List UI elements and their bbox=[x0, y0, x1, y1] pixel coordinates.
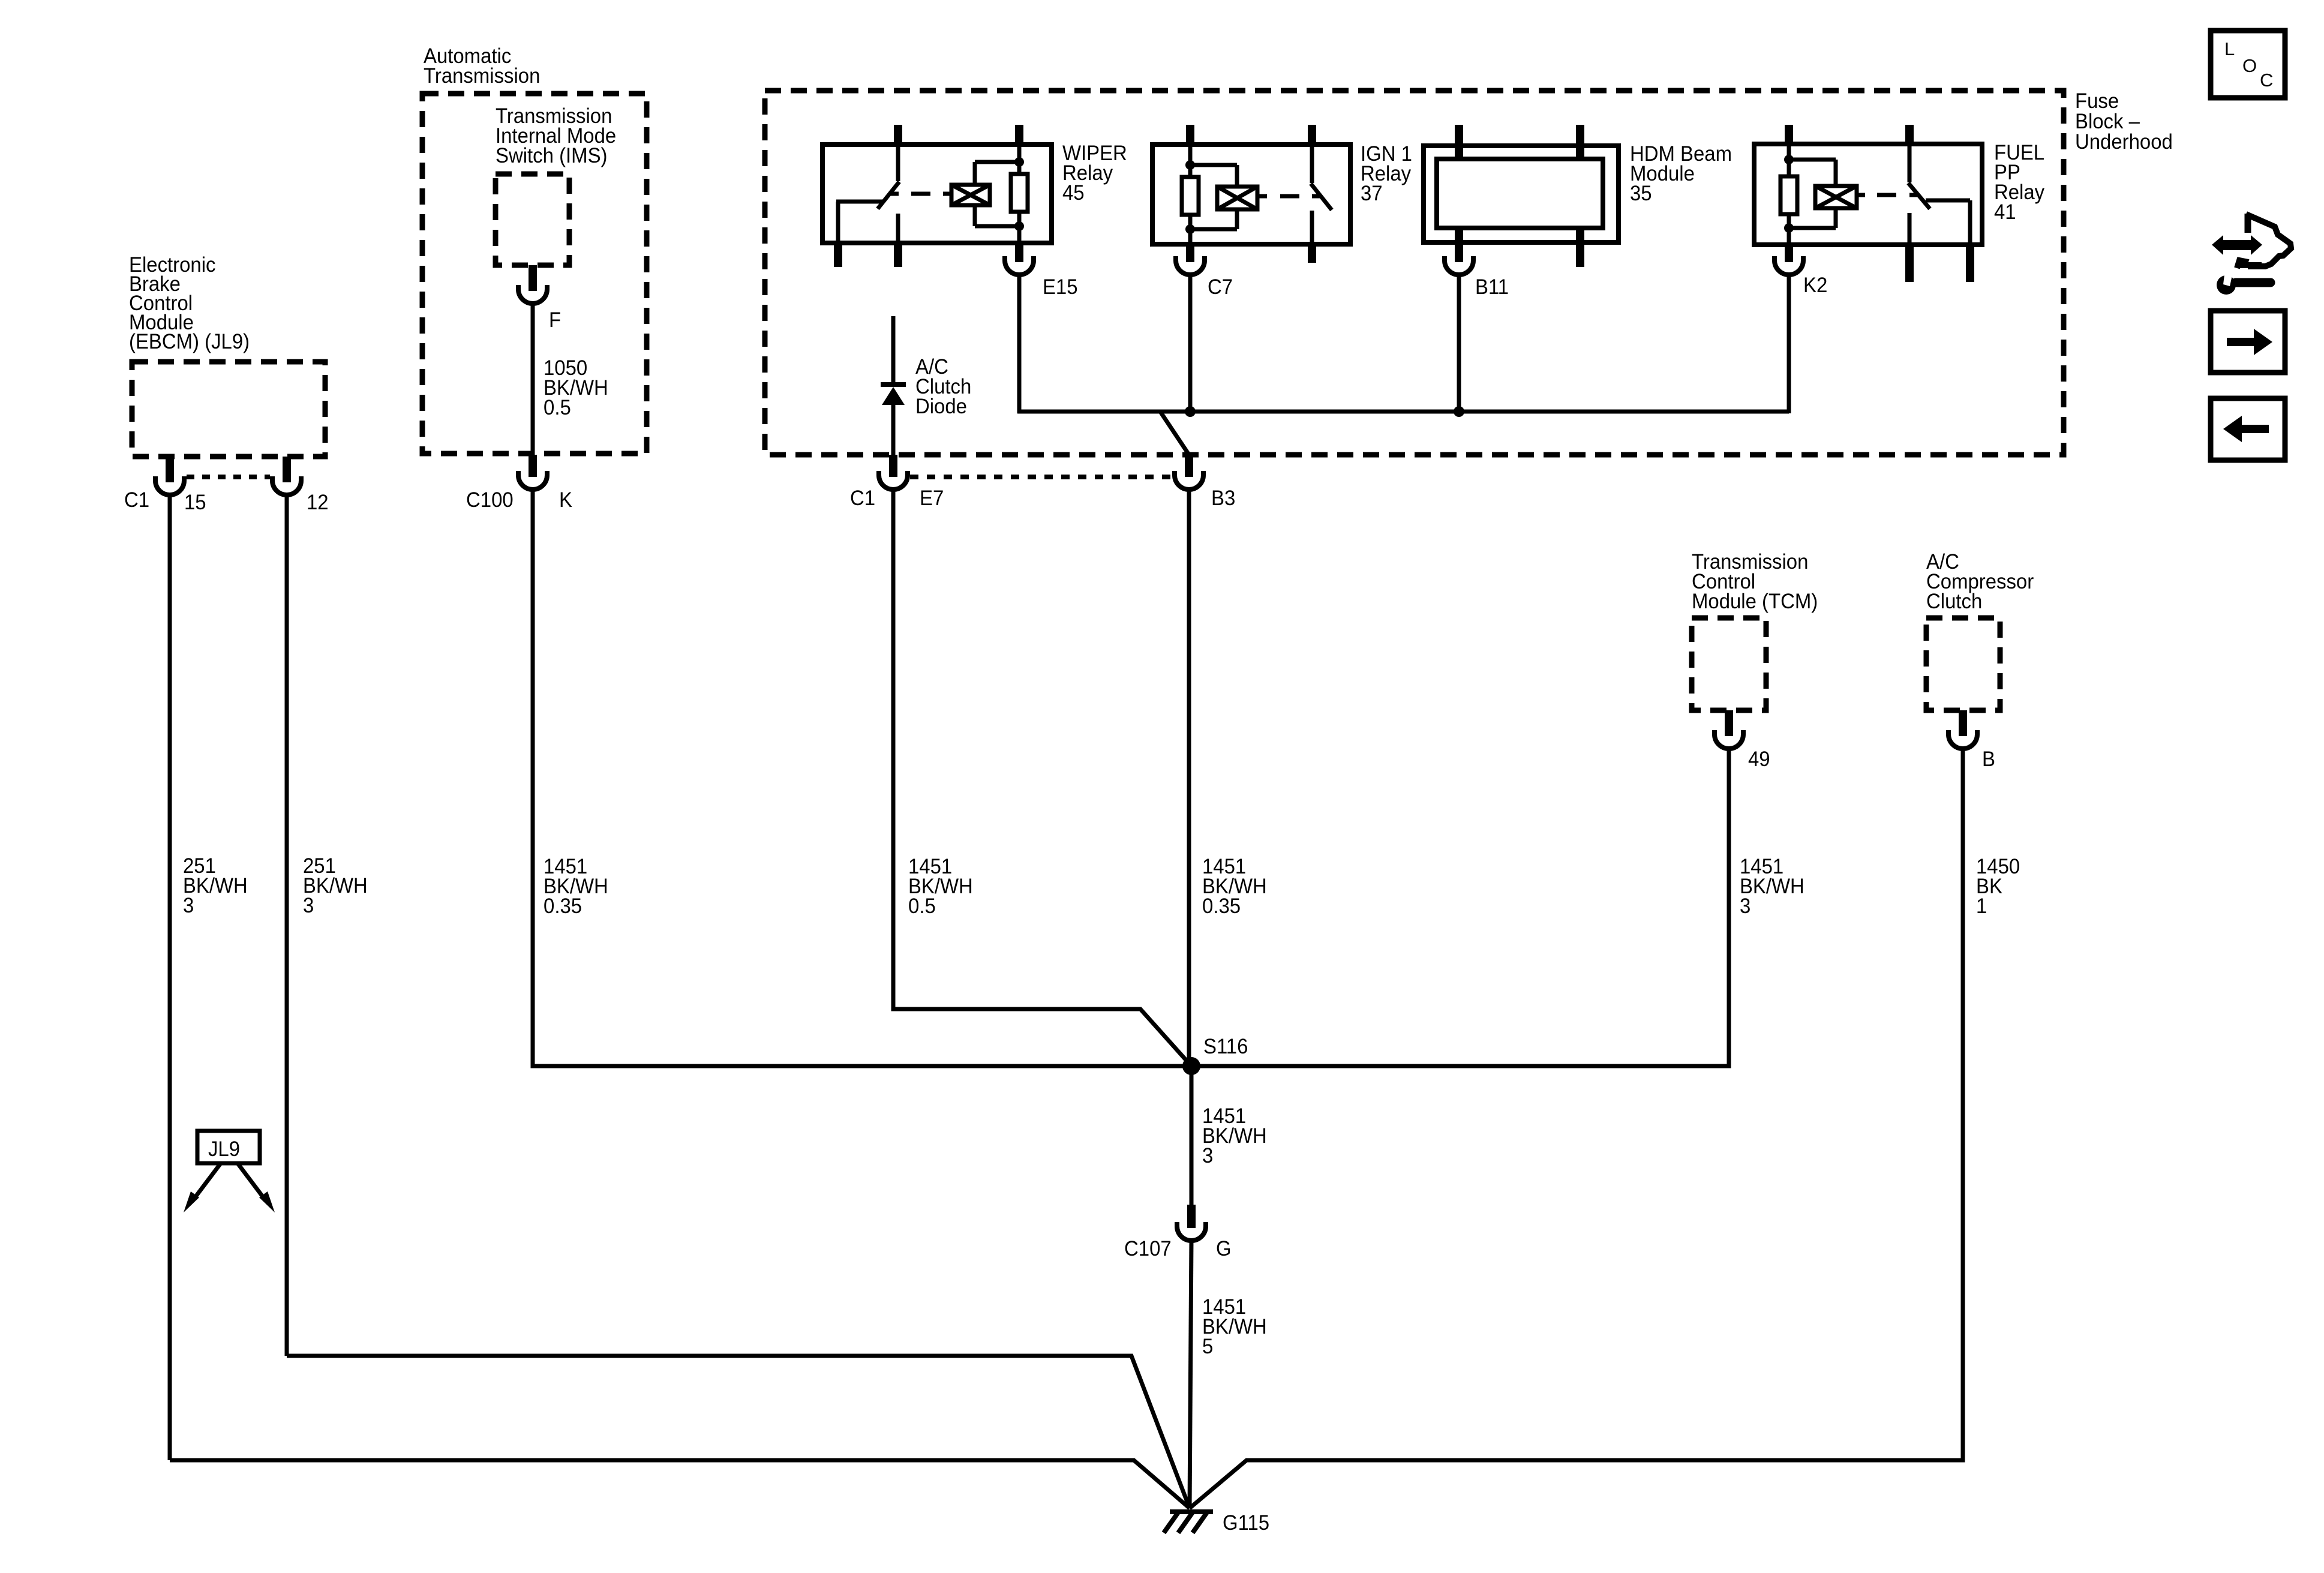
wire 1050 BK/WH from IMS F to C100 bbox=[531, 302, 535, 455]
svg-text:C1: C1 bbox=[124, 488, 149, 512]
svg-text:Underhood: Underhood bbox=[2075, 130, 2173, 154]
wire EBCM 12 to ground (upper run) bbox=[287, 1356, 1190, 1508]
svg-text:C100: C100 bbox=[466, 488, 514, 512]
svg-text:F: F bbox=[549, 308, 561, 332]
ground G115 symbol bbox=[1164, 1512, 1213, 1533]
svg-text:Transmission: Transmission bbox=[424, 64, 540, 88]
connector C107 pin bbox=[1187, 1205, 1196, 1228]
wire B11 down bbox=[1457, 274, 1461, 412]
wire diode to connector E7 bbox=[891, 404, 896, 456]
svg-text:1: 1 bbox=[1976, 894, 1987, 918]
wire 251 BK/WH from pin 15 down bbox=[168, 494, 172, 1460]
pin B of A/C compressor clutch bbox=[1959, 710, 1967, 736]
pin F of IMS bbox=[529, 265, 537, 291]
svg-text:Switch (IMS): Switch (IMS) bbox=[496, 144, 608, 167]
svg-text:B: B bbox=[1982, 748, 1995, 771]
connector C1 dotted gang line E7 to B3 bbox=[910, 475, 1172, 479]
svg-text:E7: E7 bbox=[920, 487, 944, 510]
svg-text:45: 45 bbox=[1062, 181, 1085, 205]
wire 1451 from B3 to S116 bbox=[1187, 488, 1191, 1066]
pin wiper relay top coil bbox=[1015, 125, 1023, 147]
pin fuel relay top switch bbox=[1905, 125, 1914, 146]
switch IMS dashed box bbox=[496, 174, 569, 265]
wire value label 1451 BK/WH 3 (below S116) bbox=[1202, 1104, 1267, 1167]
connector C7 arc bbox=[1176, 256, 1205, 275]
relay coil wiper (box with X) bbox=[951, 162, 1019, 226]
module label HDM Beam Module 35 bbox=[1630, 142, 1732, 205]
switch contact ign1 relay bbox=[1311, 145, 1332, 242]
module TCM dashed box bbox=[1692, 618, 1766, 710]
svg-text:3: 3 bbox=[1740, 894, 1750, 918]
wire 1450 BK from A/C clutch to ground bbox=[1190, 748, 1963, 1508]
junction dot ign1 coil top bbox=[1185, 160, 1195, 170]
resistor ign1 relay bbox=[1182, 145, 1199, 244]
pin ign1 relay top coil bbox=[1186, 125, 1194, 147]
relay label WIPER Relay 45 bbox=[1062, 142, 1127, 205]
module label Transmission Control Module (TCM) bbox=[1692, 550, 1818, 613]
connector C1 arc at pin 12 bbox=[272, 476, 301, 495]
svg-text:C: C bbox=[2260, 70, 2273, 91]
svg-text:Module (TCM): Module (TCM) bbox=[1692, 590, 1818, 613]
pin wiper relay top switch bbox=[894, 125, 902, 147]
relay K45 WIPER Relay box bbox=[822, 145, 1052, 243]
wire value label 1050 BK/WH 0.5 bbox=[544, 356, 608, 419]
module label A/C Compressor Clutch bbox=[1926, 550, 2034, 613]
svg-text:0.35: 0.35 bbox=[1202, 894, 1241, 918]
pin fuel relay top coil bbox=[1785, 125, 1793, 146]
connector E15 arc bbox=[1005, 256, 1034, 275]
connector B3 pin bbox=[1185, 455, 1193, 477]
svg-text:Clutch: Clutch bbox=[1926, 590, 1982, 613]
svg-text:(EBCM) (JL9): (EBCM) (JL9) bbox=[129, 330, 250, 353]
wire value label 1450 BK 1 bbox=[1976, 855, 2020, 918]
module A/C Compressor Clutch dashed box bbox=[1926, 618, 2000, 710]
svg-text:K: K bbox=[559, 488, 572, 512]
pin fuel relay bottom coil K2 bbox=[1785, 242, 1793, 262]
svg-text:41: 41 bbox=[1994, 200, 2016, 224]
icon arrow previous box bbox=[2211, 398, 2285, 460]
module label Fuse Block - Underhood bbox=[2075, 89, 2173, 154]
mechanical link dashes ign1 relay bbox=[1280, 194, 1299, 199]
svg-text:C7: C7 bbox=[1208, 275, 1233, 299]
pin hdm bottom left B11 bbox=[1455, 228, 1463, 262]
module HDM Beam Module inner box bbox=[1437, 159, 1603, 228]
pin hdm top right bbox=[1576, 125, 1584, 159]
junction dot fuel coil bottom bbox=[1784, 223, 1794, 233]
svg-text:K2: K2 bbox=[1803, 274, 1827, 297]
relay K41 FUEL PP Relay box bbox=[1754, 144, 1982, 245]
wire 251 BK/WH from pin 12 down bbox=[285, 494, 289, 1356]
module HDM Beam Module outer box bbox=[1424, 146, 1619, 242]
option code callout JL9 bbox=[184, 1131, 275, 1212]
connector C107 arc bbox=[1177, 1222, 1206, 1241]
svg-text:0.35: 0.35 bbox=[544, 894, 582, 918]
diode A/C Clutch Diode symbol bbox=[881, 385, 906, 405]
svg-text:5: 5 bbox=[1202, 1335, 1213, 1358]
svg-text:G115: G115 bbox=[1223, 1511, 1269, 1535]
junction dot at C7 bus bbox=[1185, 406, 1196, 417]
svg-text:JL9: JL9 bbox=[208, 1137, 240, 1161]
wire 1451 from C100 to S116 bus bbox=[533, 488, 1187, 1066]
svg-text:35: 35 bbox=[1630, 182, 1652, 205]
svg-text:B3: B3 bbox=[1211, 487, 1235, 510]
connector B3 arc bbox=[1175, 471, 1203, 490]
switch contact wiper relay bbox=[836, 145, 899, 242]
component label Transmission Internal Mode Switch (IMS) bbox=[496, 104, 616, 167]
pin wiper relay bottom common bbox=[834, 241, 842, 267]
connector 49 arc bbox=[1715, 730, 1743, 749]
wire value label 1451 BK/WH 0.35 (C100) bbox=[544, 855, 608, 918]
wire 1451 BK/WH 5 from C107 to ground bbox=[1190, 1239, 1191, 1508]
svg-text:B11: B11 bbox=[1475, 275, 1509, 299]
pin ign1 relay bottom coil C7 bbox=[1186, 242, 1194, 262]
pin ign1 relay bottom switch stub bbox=[1308, 242, 1316, 263]
connector C100 pin bbox=[529, 455, 537, 477]
wire K2 down bbox=[1787, 274, 1791, 413]
wire value label 1451 BK/WH 0.35 (B3) bbox=[1202, 855, 1267, 918]
junction dot ign1 coil bottom bbox=[1185, 224, 1195, 234]
pin 15 of EBCM bbox=[166, 457, 174, 482]
svg-text:E15: E15 bbox=[1043, 275, 1078, 299]
module Fuse Block Underhood dashed box bbox=[765, 91, 2064, 455]
svg-text:O: O bbox=[2242, 55, 2257, 76]
connector K2 arc bbox=[1774, 256, 1803, 275]
svg-text:Diode: Diode bbox=[915, 395, 967, 418]
pin ign1 relay top switch bbox=[1308, 125, 1316, 147]
svg-text:49: 49 bbox=[1748, 748, 1770, 771]
relay coil fuel (box with X) bbox=[1789, 160, 1865, 228]
relay label IGN 1 Relay 37 bbox=[1361, 142, 1412, 205]
wire value label 251 BK/WH 3 (left) bbox=[183, 854, 248, 917]
svg-text:S116: S116 bbox=[1203, 1035, 1248, 1058]
wire diagonal neck to B3 bbox=[1160, 412, 1189, 455]
pin 49 of TCM bbox=[1725, 710, 1733, 736]
wire 1451 from E7 to S116 bbox=[893, 488, 1191, 1066]
wire EBCM 15 to ground (lower run) bbox=[170, 1460, 1190, 1508]
connector C1 dotted gang line bbox=[187, 475, 270, 479]
module EBCM dashed box bbox=[132, 362, 325, 457]
connector F arc bbox=[518, 285, 547, 304]
svg-text:3: 3 bbox=[303, 894, 314, 917]
junction dot wiper coil top bbox=[1014, 157, 1024, 167]
junction dot at B11 bus bbox=[1454, 406, 1464, 417]
pin hdm top left bbox=[1455, 125, 1463, 159]
connector B arc bbox=[1948, 730, 1977, 749]
svg-text:3: 3 bbox=[1202, 1144, 1213, 1167]
switch contact fuel relay bbox=[1908, 144, 1970, 242]
connector C1 arc at pin 15 bbox=[155, 476, 184, 495]
mechanical link dashes fuel relay bbox=[1877, 193, 1896, 197]
svg-text:12: 12 bbox=[307, 491, 329, 514]
mechanical link dashes wiper relay bbox=[911, 192, 951, 196]
pin hdm bottom right stub bbox=[1576, 228, 1584, 267]
junction dot wiper coil bottom bbox=[1014, 221, 1024, 231]
relay label FUEL PP Relay 41 bbox=[1994, 141, 2045, 224]
svg-text:C107: C107 bbox=[1124, 1237, 1172, 1260]
wire C7 down bbox=[1188, 274, 1193, 412]
svg-text:0.5: 0.5 bbox=[908, 894, 936, 918]
pin fuel relay bottom switch stub bbox=[1905, 242, 1914, 282]
pin 12 of EBCM bbox=[283, 457, 291, 482]
relay coil ign1 (box with X) bbox=[1190, 165, 1267, 229]
wire value label 1451 BK/WH 5 bbox=[1202, 1295, 1267, 1358]
connector C100 arc bbox=[518, 471, 547, 490]
svg-text:3: 3 bbox=[183, 894, 194, 917]
icon LOC box bbox=[2211, 31, 2285, 98]
wire 1451 from TCM to S116 bus bbox=[1191, 748, 1729, 1066]
relay K37 IGN 1 Relay box bbox=[1152, 145, 1350, 244]
icon arrow next box bbox=[2211, 311, 2285, 373]
pin wiper relay bottom switch bbox=[894, 241, 902, 267]
svg-text:L: L bbox=[2224, 38, 2235, 59]
svg-text:0.5: 0.5 bbox=[544, 396, 571, 419]
diode A/C Clutch Diode wire top bbox=[891, 316, 896, 385]
wire value label 1451 BK/WH 3 (TCM) bbox=[1740, 855, 1804, 918]
pin fuel relay bottom right stub bbox=[1966, 242, 1974, 282]
module label Electronic Brake Control Module (EBCM) (JL9) bbox=[129, 253, 250, 353]
icon vehicle diagnostic with double arrow and wrench bbox=[2212, 214, 2291, 295]
resistor wiper relay bbox=[1011, 145, 1028, 242]
module Automatic Transmission dashed box bbox=[422, 94, 647, 454]
svg-text:37: 37 bbox=[1361, 182, 1383, 205]
pin wiper relay bottom coil E15 bbox=[1015, 241, 1023, 262]
svg-text:C1: C1 bbox=[850, 487, 875, 510]
wire E15 down bbox=[1017, 274, 1022, 413]
wire 1451 from S116 to C107 bbox=[1190, 1066, 1194, 1207]
wire ground bus in fuse block bbox=[1017, 410, 1789, 414]
wire value label 1451 BK/WH 0.5 (E7) bbox=[908, 855, 973, 918]
connector E7 pin bbox=[889, 455, 897, 477]
svg-text:15: 15 bbox=[184, 491, 206, 514]
splice S116 junction dot bbox=[1182, 1057, 1200, 1075]
junction dot fuel coil top bbox=[1784, 155, 1794, 164]
connector B11 arc bbox=[1445, 256, 1473, 275]
svg-text:G: G bbox=[1216, 1237, 1232, 1260]
wire value label 251 BK/WH 3 (right) bbox=[303, 854, 368, 917]
module label Automatic Transmission bbox=[424, 44, 540, 88]
resistor fuel relay bbox=[1780, 144, 1797, 245]
component label A/C Clutch Diode bbox=[915, 355, 971, 418]
connector E7 arc bbox=[879, 471, 908, 490]
